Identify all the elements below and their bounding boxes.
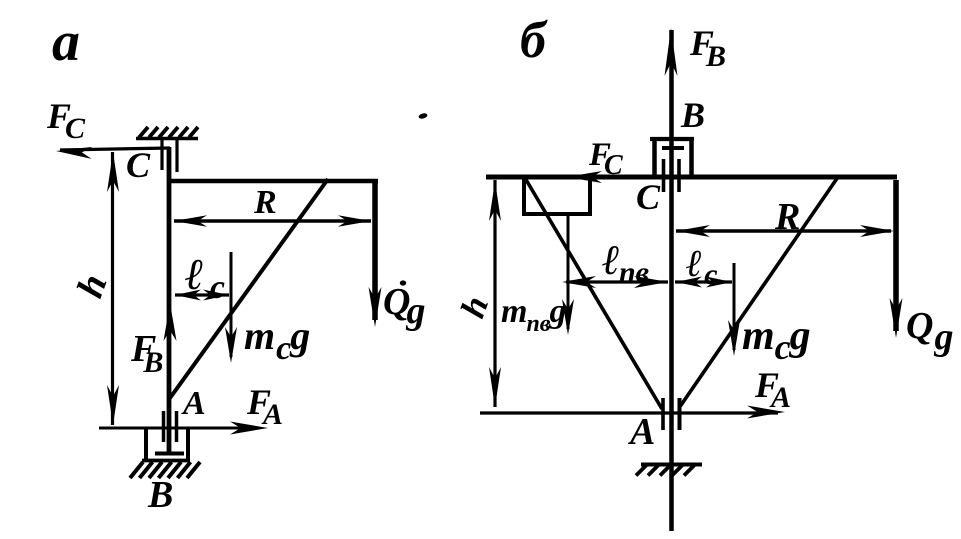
pin C vertical 2 b [677, 159, 681, 192]
ceiling hatching C [139, 127, 148, 138]
dimension h line [111, 152, 114, 425]
svg-text:B: B [680, 95, 705, 135]
dimension h top arrowhead b [489, 181, 501, 221]
svg-text:A: A [628, 411, 655, 453]
dimension R left arrowhead b [676, 225, 710, 237]
dimension R line a [174, 219, 371, 223]
left diagonal tie b [525, 178, 662, 409]
svg-text:R: R [774, 196, 800, 238]
force Qg arrowhead [369, 287, 382, 327]
svg-text:C: C [636, 177, 661, 217]
force m_pv g arrow line b [567, 215, 570, 329]
svg-text:R: R [253, 184, 277, 221]
force m_c g arrow line a [230, 252, 233, 357]
ground line b [480, 411, 778, 414]
dimension R right arrowhead [338, 215, 371, 227]
dimension l_pv left arrowhead b [562, 276, 596, 288]
ground hatching b [636, 465, 647, 476]
support bracket B right wall [186, 428, 190, 460]
mast axis b [669, 30, 674, 531]
force m_pv g arrowhead b [562, 299, 574, 335]
pin A vertical 2 [175, 411, 179, 442]
svg-text:б: б [520, 12, 548, 69]
ground hatch line b [641, 463, 702, 467]
force F_A arrowhead a [230, 422, 268, 435]
pin A vertical 1 b [661, 398, 665, 430]
force Qg arrowhead b [890, 298, 903, 338]
dimension R line b [676, 229, 891, 232]
counterweight box right wall [588, 179, 592, 214]
dimension h line b [493, 180, 496, 407]
dimension l_c line a [175, 293, 229, 296]
support bracket B inner tee [155, 452, 184, 456]
dimension l_c left arrowhead b [676, 277, 702, 288]
right diagonal tie b [679, 177, 838, 408]
stray mark [418, 112, 428, 119]
pin C vertical 1 [160, 139, 163, 170]
force m_c g arrowhead b [728, 320, 740, 356]
slider bracket B inner tee [662, 146, 684, 150]
force m_c g arrow line b [733, 263, 736, 350]
top beam a [167, 179, 378, 184]
pin C vertical 1 b [662, 159, 666, 192]
dimension l_pv right arrowhead b [634, 276, 668, 288]
force F_C arrowhead b [566, 171, 602, 183]
pin C vertical 2 [175, 139, 178, 172]
svg-text:A: A [181, 385, 206, 422]
dimension h bottom arrowhead b [489, 367, 501, 407]
column mast a [167, 147, 172, 455]
force F_B arrowhead b [665, 28, 678, 76]
svg-text:C: C [126, 145, 151, 185]
dimension R right arrowhead b [860, 225, 894, 237]
force Qg arrow line [372, 180, 378, 320]
dimension h bottom arrowhead [107, 385, 119, 425]
svg-text:а: а [52, 11, 80, 73]
ceiling support line C [136, 137, 198, 140]
label Qg dot [400, 280, 406, 285]
force F_C arrow line b [570, 175, 651, 178]
dimension l_c right arrowhead a [203, 290, 229, 301]
force m_c g arrowhead a [225, 327, 237, 363]
force Qg arrow line b [893, 180, 899, 331]
pin A vertical 2 b [678, 398, 682, 430]
dimension l_c left arrowhead a [175, 290, 201, 301]
force F_B arrowhead a [164, 303, 177, 341]
slider bracket B right wall [689, 137, 694, 176]
support bracket B left wall [144, 428, 148, 460]
dimension l_pv line b [566, 280, 668, 283]
counterweight box bottom [522, 212, 592, 216]
force F_C arrow [60, 148, 170, 150]
top beam b [486, 175, 897, 180]
svg-text:B: B [147, 474, 173, 516]
dimension l_c right arrowhead b [706, 277, 732, 288]
counterweight box left wall [522, 179, 526, 214]
dimension l_c line b [675, 280, 732, 283]
pin A vertical 1 [162, 411, 166, 442]
dimension h top arrowhead [107, 152, 119, 192]
base line a [99, 427, 258, 430]
diagonal boom a [170, 179, 328, 398]
slider bracket B left wall [652, 137, 657, 176]
slider bracket B top [650, 137, 694, 141]
dimension R left arrowhead [174, 215, 207, 227]
support bracket B bottom [142, 459, 190, 463]
force F_A arrowhead b [747, 406, 785, 419]
ground hatching B [130, 462, 143, 478]
